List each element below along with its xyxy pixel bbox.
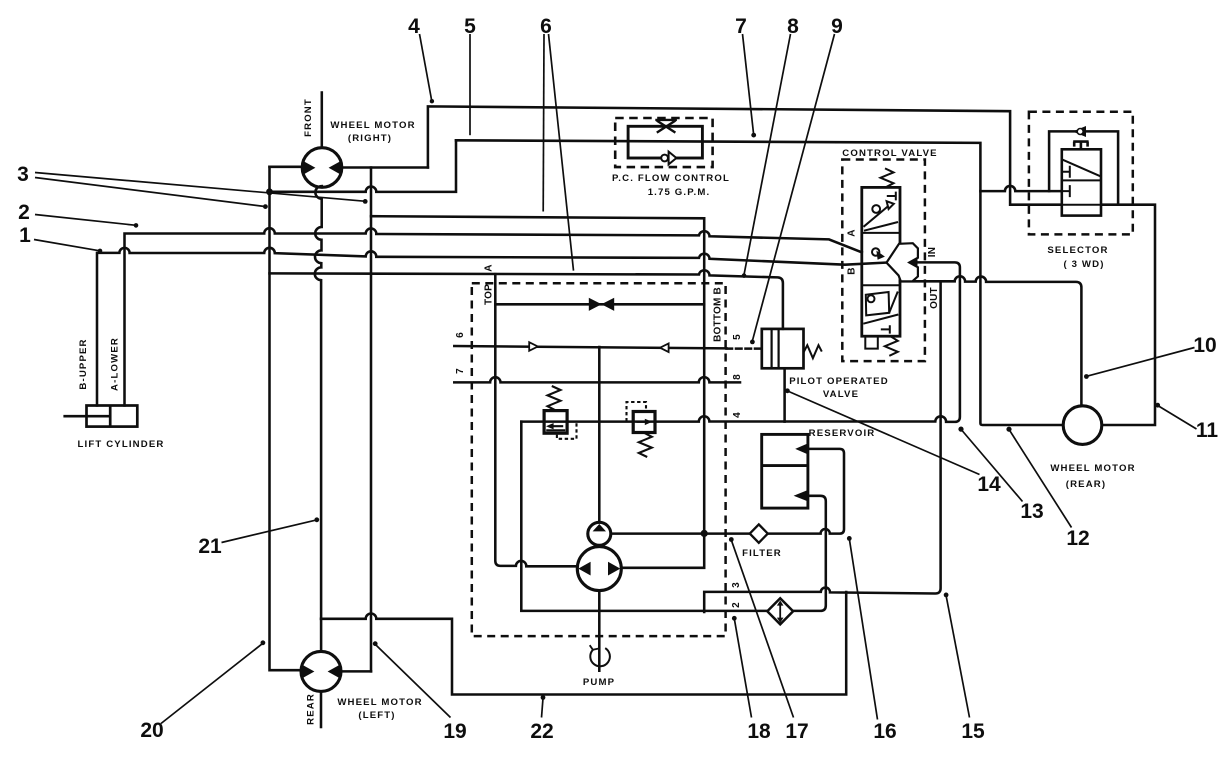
svg-text:WHEEL MOTOR: WHEEL MOTOR (337, 697, 422, 708)
svg-text:PILOT OPERATED: PILOT OPERATED (789, 376, 889, 387)
wire: wheel motor right, right port line to callout-4 riser (342, 166, 428, 169)
leader dot 1 (98, 249, 103, 254)
leader 21 (222, 520, 317, 543)
control valve IN arrowhead (909, 258, 918, 267)
wire: A-LOWER line y233.5 from lift cylinder across to control valve port A (125, 228, 862, 405)
control valve bottom T (881, 325, 890, 333)
svg-text:BOTTOM B: BOTTOM B (713, 287, 724, 342)
wire: relief / port 4 line y421.5 across to riser x959.9 up to control valve IN (521, 262, 960, 422)
selector valve body (1062, 149, 1101, 215)
leader dot 2 (134, 223, 139, 228)
svg-text:6: 6 (540, 15, 552, 38)
control valve bottom legs (865, 336, 878, 348)
svg-text:P.C. FLOW CONTROL: P.C. FLOW CONTROL (612, 173, 730, 184)
leader dot 3 lower (263, 204, 268, 209)
wire: pilot dashed line port 5 to pilot operated valve (727, 347, 762, 350)
wire: port 3 line from step x704 to riser x940.6 up to control valve OUT line (704, 282, 940, 612)
svg-text:21: 21 (198, 535, 222, 558)
svg-text:(RIGHT): (RIGHT) (348, 133, 392, 144)
leader dot 11 (1155, 403, 1160, 408)
node: junction dot charge line x704 (701, 530, 708, 537)
leader 22 (542, 698, 544, 717)
leader dot 10 (1084, 374, 1089, 379)
svg-text:( 3 WD): ( 3 WD) (1063, 259, 1104, 270)
control valve A port arrowhead (876, 251, 885, 260)
wire: bus 2 (callout 5) from x456 across to x980.4, down to rear motor left line (456, 140, 1063, 425)
wire: B-UPPER line y253 from lift cylinder across to control valve port B (97, 248, 887, 406)
svg-text:B: B (847, 267, 858, 274)
leader dot 20 (261, 640, 266, 645)
svg-text:4: 4 (732, 412, 743, 418)
wheel motor (right) (302, 148, 342, 188)
selector line through bottom section (1062, 204, 1101, 206)
svg-text:6: 6 (455, 332, 466, 338)
wire: pilot operated valve output drop (783, 368, 786, 421)
bypass valve diamond (item 17) (767, 598, 793, 624)
wire: wheel motor right, left port line (270, 166, 303, 169)
svg-text:4: 4 (408, 15, 420, 38)
svg-text:5: 5 (464, 15, 476, 38)
wire: charge/filter line y533.6 from charge pump to filter to reservoir top (611, 449, 844, 534)
control valve IN passage shape (887, 243, 918, 281)
svg-text:22: 22 (530, 720, 553, 743)
wire: left rail vertical (lift circuit rail) (270, 167, 301, 670)
leader 4 (420, 34, 432, 101)
wire: line y216 from right rail to valve block vertical x704, down to pump right side (371, 216, 704, 568)
svg-text:OUT: OUT (929, 287, 940, 309)
svg-text:PUMP: PUMP (583, 677, 615, 688)
lift cylinder (63, 406, 137, 427)
svg-text:VALVE: VALVE (823, 389, 859, 400)
svg-text:18: 18 (747, 720, 771, 743)
leader 20 (161, 643, 263, 723)
wire: axle below wheel motor left (320, 692, 323, 727)
leader 6 right (549, 34, 574, 271)
needle valve X on top edge (655, 120, 677, 133)
wire: port 7/8 line y382.4 (454, 377, 740, 382)
pump main circle (577, 547, 621, 591)
svg-text:REAR: REAR (306, 693, 317, 725)
P.C. flow control body (628, 126, 702, 158)
svg-text:SELECTOR: SELECTOR (1047, 245, 1108, 256)
wire: bottom return from axle junction y618.8 right, down x452, along bottom y694.5, up x846.2 (321, 592, 846, 695)
leader 2 (35, 215, 135, 226)
control valve bottom spring (885, 336, 898, 356)
control valve section dividers (862, 233, 900, 285)
rotated labels (78, 98, 940, 725)
wire: top bus 1 (callout 4) from motor right up and across to selector, down and along y204.7 to x1155, down to rear motor right line (428, 106, 1155, 425)
svg-text:A: A (484, 264, 495, 271)
svg-text:7: 7 (735, 15, 747, 38)
control valve middle section A arrow (872, 248, 879, 255)
wire: top bus of valve block y273.5 to pilot operated valve drop (270, 270, 783, 329)
wheel motor (left) (301, 651, 341, 691)
svg-text:8: 8 (787, 15, 799, 38)
wire: pump left supply: TOP A vertical x495.3 down then right to pump (495, 274, 577, 566)
control valve top spring (881, 168, 894, 187)
leader 3 lower (35, 178, 265, 207)
svg-text:11: 11 (1196, 419, 1219, 442)
svg-text:3: 3 (17, 163, 29, 186)
leader dot 18 (732, 616, 737, 621)
leader 16 (849, 539, 877, 719)
control valve top section flow symbol (864, 205, 890, 227)
svg-text:(LEFT): (LEFT) (358, 710, 395, 721)
leader dot 9 (750, 340, 755, 345)
control valve top T (tank) (887, 192, 896, 201)
leader 12 (1009, 430, 1071, 528)
leader 18 (734, 619, 751, 717)
leader 9 (752, 34, 834, 341)
leader dot 3 upper (363, 199, 368, 204)
svg-text:9: 9 (831, 15, 843, 38)
charge pump triangle (up) (593, 524, 606, 531)
svg-text:13: 13 (1020, 500, 1043, 523)
wire: selector feed line y191 from bus2 vertical to selector valve (980, 186, 1061, 191)
leader dot 4 (430, 99, 434, 103)
leader 1 (34, 240, 99, 251)
svg-text:TOP: TOP (484, 284, 495, 305)
svg-text:B-UPPER: B-UPPER (78, 338, 89, 389)
leader 8 (744, 34, 791, 275)
wire: valve block center vertical x599.3 (598, 347, 601, 522)
svg-text:7: 7 (455, 368, 466, 374)
leader dot 13 (958, 427, 963, 432)
svg-text:WHEEL MOTOR: WHEEL MOTOR (330, 120, 415, 131)
check valve on bottom edge (661, 155, 668, 162)
svg-text:1: 1 (19, 224, 31, 247)
leader 6 left (542, 34, 545, 212)
pump rotation arrow (590, 645, 610, 666)
control valve bottom section symbol (866, 292, 889, 315)
svg-text:20: 20 (140, 719, 163, 742)
charge pump circle (588, 522, 611, 545)
svg-text:19: 19 (443, 720, 466, 743)
leader dot 12 (1006, 427, 1011, 432)
selector dashed box (1029, 112, 1133, 235)
selector top diagonal (1062, 160, 1100, 177)
wire: port 2 / relief drain: x521.3 down, bottom line y611, out port2 through bypass valve, up x825.8 to reservoir bottom (521, 422, 826, 611)
svg-text:A: A (847, 229, 858, 236)
leader dot 8 (742, 273, 747, 278)
selector top cap T (1073, 142, 1088, 150)
leader dot 21 (314, 517, 319, 522)
leader 10 (1087, 348, 1195, 377)
control valve body (862, 187, 900, 336)
svg-text:RESERVOIR: RESERVOIR (809, 428, 876, 439)
svg-text:17: 17 (785, 720, 808, 743)
svg-text:8: 8 (732, 374, 743, 380)
svg-text:FILTER: FILTER (742, 548, 782, 559)
wire: center vertical axle with crossover wiggles (front-rear shaft line) (321, 93, 324, 148)
leader end dots (98, 99, 1160, 700)
leader dot 22 (541, 695, 546, 700)
control valve dashed box (842, 160, 925, 362)
leader 13 (961, 430, 1022, 502)
svg-text:CONTROL VALVE: CONTROL VALVE (842, 148, 937, 159)
reservoir bottom inlet arrow (794, 490, 808, 501)
wire: control valve OUT line to rear wheel motor top (900, 276, 1081, 406)
svg-text:LIFT CYLINDER: LIFT CYLINDER (78, 439, 165, 450)
svg-text:16: 16 (873, 720, 896, 743)
pilot operated valve (762, 329, 822, 368)
leader dot 15 (944, 593, 949, 598)
node: junction blob left rail / y192 (266, 188, 273, 195)
pump triangles (outward) (578, 562, 590, 576)
selector divider (1062, 179, 1101, 181)
open flow arrow right on port6 line (529, 342, 538, 351)
reservoir (762, 434, 808, 508)
wire: check valve line y304.3 (495, 303, 704, 306)
leader dot 16 (847, 536, 852, 541)
leader 14 (788, 391, 980, 475)
svg-text:(REAR): (REAR) (1066, 479, 1106, 490)
wire: bus line y192 from left rail to riser x456, up to bus y140 (270, 140, 457, 192)
leader 17 (731, 540, 793, 717)
leader 7 (743, 34, 754, 134)
svg-text:IN: IN (927, 247, 938, 257)
svg-text:FRONT: FRONT (303, 98, 314, 137)
relief valve left (square, spring up, dashed pilot) (544, 411, 567, 434)
wheel motor right triangles (inward) (303, 161, 315, 175)
leader 3 upper (35, 173, 364, 202)
P.C. flow control dashed box (615, 118, 712, 167)
relief valve right (square, spring down, dashed pilot) (633, 412, 655, 433)
leader dot 17 (729, 537, 734, 542)
center valve block dashed box (472, 283, 726, 636)
svg-text:5: 5 (732, 334, 743, 340)
svg-text:10: 10 (1193, 334, 1216, 357)
leader 5 (469, 34, 471, 135)
reservoir top inlet arrow (795, 443, 808, 454)
svg-text:1.75 G.P.M.: 1.75 G.P.M. (648, 187, 711, 198)
svg-text:2: 2 (18, 201, 30, 224)
shut-off bowtie on check line (589, 298, 614, 311)
leader 19 (375, 644, 450, 717)
filter diamond (750, 524, 768, 542)
svg-text:WHEEL MOTOR: WHEEL MOTOR (1050, 463, 1135, 474)
svg-text:2: 2 (731, 602, 742, 608)
wire: port 6 line y346 with flow arrows (454, 346, 726, 348)
leader dot 19 (373, 641, 378, 646)
open flow arrow left on port6 line (660, 343, 669, 352)
leader dot 7 (751, 133, 756, 138)
wire: right rail vertical (370, 168, 373, 672)
svg-text:15: 15 (961, 720, 985, 743)
wheel motor left triangles (inward) (302, 665, 314, 679)
leader 11 (1158, 406, 1197, 430)
wire: pump shaft (598, 591, 601, 671)
wire: wheel motor left right port line (341, 670, 371, 673)
wire: selector bypass loop with check arrow (1049, 131, 1118, 204)
selector port stubs (1062, 166, 1070, 178)
leader 15 (946, 596, 969, 718)
leader dot 14 (785, 388, 790, 393)
svg-text:12: 12 (1066, 527, 1089, 550)
wheel motor (rear) (1063, 406, 1102, 445)
svg-text:A-LOWER: A-LOWER (110, 337, 121, 391)
svg-text:14: 14 (977, 473, 1001, 496)
svg-text:3: 3 (731, 582, 742, 588)
selector bypass check arrow (1073, 126, 1086, 137)
